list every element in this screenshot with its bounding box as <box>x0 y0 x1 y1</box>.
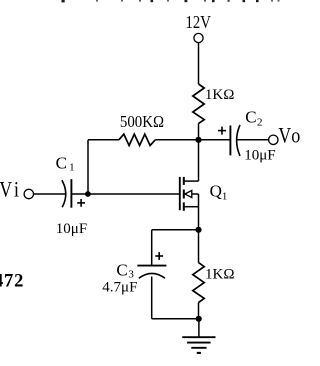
svg-text:C: C <box>116 260 127 279</box>
wire: feedback vertical from drain rail down to gate node <box>87 140 89 194</box>
svg-text:4.7μF: 4.7μF <box>102 279 137 295</box>
MOSFET Q1 gate bar <box>179 177 181 210</box>
capacitor C3 straight plate (top) <box>137 265 166 267</box>
svg-text:i: i <box>14 178 19 202</box>
capacitor C1 curved plate <box>62 180 66 207</box>
ground bar 2 <box>187 342 211 344</box>
wire: supply terminal to resistor R top <box>198 43 200 84</box>
plus sign of capacitor C1 <box>77 199 85 207</box>
node dot: ground node <box>196 316 202 322</box>
wire: C3 bottom vertical to bottom rail <box>151 277 153 319</box>
MOSFET Q1 body arrow <box>185 190 192 197</box>
wire: drain rail left segment to feedback corner <box>88 139 119 141</box>
wire: source node branch to C3 (horizontal) <box>152 229 199 231</box>
wire: body/source vertical down to source node <box>198 194 200 230</box>
MOSFET Q1 middle channel plate <box>183 190 185 199</box>
svg-text:V: V <box>278 124 291 148</box>
ground bar 3 <box>191 347 206 349</box>
wire: Vi terminal to capacitor C1 <box>34 193 66 195</box>
wire: resistor bottom through drain node to MOSFET drain lead <box>198 124 200 182</box>
svg-text:1KΩ: 1KΩ <box>205 87 234 103</box>
svg-text:C: C <box>56 153 67 172</box>
ground stub <box>198 319 200 337</box>
wire: drain rail right segment to C2 plate <box>155 139 230 141</box>
wire: C3 branch vertical down to C3 top plate <box>151 230 153 266</box>
supply terminal circle (12V) <box>194 33 203 42</box>
node dot: drain node <box>195 137 201 143</box>
node dot: gate node <box>85 191 91 197</box>
capacitor C2 curved plate <box>237 125 240 156</box>
ground bar 4 <box>197 352 201 354</box>
capacitor C3 curved plate (bottom) <box>139 273 165 278</box>
MOSFET Q1 source lead <box>185 206 199 208</box>
MOSFET Q1 top channel plate <box>183 177 185 185</box>
resistor 500K zigzag (horizontal) <box>119 134 155 145</box>
svg-text:1: 1 <box>69 162 75 174</box>
plus sign of capacitor C3 <box>155 252 163 260</box>
resistor 1K (bottom) zigzag <box>193 263 204 303</box>
MOSFET Q1 drain lead <box>185 180 199 182</box>
output terminal circle Vo <box>269 135 278 144</box>
capacitor C1 straight plate <box>70 179 72 208</box>
svg-text:12V: 12V <box>186 14 212 32</box>
capacitor C2 straight plate <box>229 126 231 156</box>
svg-text:1KΩ: 1KΩ <box>205 267 234 283</box>
input terminal circle Vi <box>24 189 33 198</box>
ground bar 1 <box>182 336 215 338</box>
wire: bottom resistor to ground node <box>198 303 200 319</box>
svg-text:1: 1 <box>222 191 228 203</box>
svg-text:10μF: 10μF <box>56 221 87 237</box>
MOSFET Q1 body lead <box>192 193 199 195</box>
svg-text:2: 2 <box>257 116 263 128</box>
plus sign of capacitor C2 <box>218 127 226 135</box>
svg-text:500KΩ: 500KΩ <box>120 113 164 131</box>
svg-text:C: C <box>245 107 256 126</box>
wire: C2 to output terminal <box>237 139 269 141</box>
MOSFET Q1 bottom channel plate <box>183 202 185 210</box>
svg-text:10μF: 10μF <box>244 148 275 164</box>
svg-text:V: V <box>0 178 13 202</box>
cut-off text descender marks along top edge <box>62 0 280 2</box>
wire: C1 plate through gate node to MOSFET gate <box>71 193 179 195</box>
node dot: source node <box>195 227 201 233</box>
resistor 1K (top, drain) zigzag <box>193 84 204 124</box>
svg-text:o: o <box>291 124 300 148</box>
svg-text:Q: Q <box>210 181 222 200</box>
wire: bottom rail to ground node <box>152 318 199 320</box>
resistor 1K (bottom, source) wire from node <box>198 230 200 263</box>
svg-text:472: 472 <box>0 271 24 291</box>
